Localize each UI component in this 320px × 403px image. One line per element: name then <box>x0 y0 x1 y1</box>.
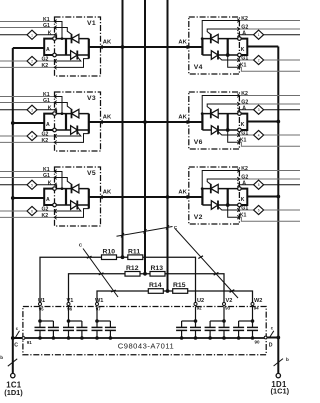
cable marker C (right, across snubber rows) <box>175 229 238 299</box>
svg-text:4: 4 <box>31 135 33 139</box>
node V3 terminal A <box>53 128 57 132</box>
svg-text:R14: R14 <box>149 282 162 289</box>
wire V4 K2 <box>239 20 300 22</box>
wire V3 K2 <box>0 141 55 143</box>
wire W2 drop to capacitors <box>252 306 254 321</box>
cable marker C (upper, across phase buses) <box>117 227 173 237</box>
wire V5 AK output <box>89 196 101 198</box>
wire V3 external jumper frame K-A <box>44 114 53 130</box>
wire V1 internal right bar (AK) <box>88 39 90 59</box>
junction U2 spreader <box>194 319 198 323</box>
wire V1 K2 <box>0 66 55 68</box>
wire V2 drop to capacitors <box>223 306 225 321</box>
junction V2 K1 / bottom line <box>226 203 230 207</box>
svg-text:W2: W2 <box>254 298 262 304</box>
wire DC bus 1D1 (right vertical) <box>277 47 279 374</box>
wire V2 K1 (jogs down outside module) <box>239 217 300 221</box>
wire V6 G2 internal to gate <box>207 104 239 109</box>
svg-text:b: b <box>0 355 3 360</box>
svg-text:AK: AK <box>178 39 187 45</box>
thyristor V2 bottom (forward) <box>211 201 218 210</box>
wire V1 phase input <box>13 47 44 49</box>
node board terminal V2 (93) <box>223 303 226 306</box>
junction row3 / bus W <box>166 289 170 293</box>
svg-text:K: K <box>241 122 245 128</box>
svg-text:G2: G2 <box>42 207 49 213</box>
svg-text:C98043-A7011: C98043-A7011 <box>118 342 175 351</box>
svg-text:AK: AK <box>103 39 112 45</box>
svg-text:6: 6 <box>258 209 260 213</box>
capacitor W1 b <box>109 321 111 327</box>
junction 1C1 bus / V3 input <box>11 121 15 125</box>
junction AK row 1 / bus U <box>121 45 125 49</box>
capacitor V1 a <box>68 321 70 327</box>
svg-text:D: D <box>269 343 273 349</box>
svg-text:92: 92 <box>197 306 202 311</box>
capacitor U2 b <box>181 321 183 327</box>
wire V5 K2 <box>0 216 55 218</box>
junction row1 / bus U <box>121 255 125 259</box>
wire V2 A (with plug diamond) <box>239 184 300 186</box>
wire V4 A (with plug diamond) <box>239 34 300 36</box>
wire V2 G2 internal to gate <box>207 179 239 184</box>
wire V5 internal bottom line <box>56 204 89 206</box>
capacitor W1 a <box>96 321 98 327</box>
cable marker c (left) <box>15 331 20 339</box>
svg-text:AK: AK <box>103 189 112 195</box>
junction 1C1 bus / terminal 91 wire <box>11 336 15 340</box>
wire V3 K1 <box>0 96 55 98</box>
resistor R10 <box>102 255 117 260</box>
thyristor V5 bottom (forward) <box>71 201 78 210</box>
svg-text:C: C <box>14 342 18 348</box>
junction V2 spreader <box>222 319 226 323</box>
wire V4 K1 (jogs down outside module) <box>239 67 300 71</box>
svg-text:5: 5 <box>258 183 260 187</box>
svg-text:1: 1 <box>31 33 33 37</box>
node board terminal V1 (96) <box>67 303 70 306</box>
capacitor V2 b <box>209 321 211 327</box>
svg-text:A: A <box>242 180 246 186</box>
junction 1D1 bus / terminal 90 wire <box>276 336 280 340</box>
svg-text:G1: G1 <box>43 23 50 29</box>
svg-text:K2: K2 <box>42 138 49 144</box>
capacitor V1 b <box>81 321 83 327</box>
wire V4 G1 <box>239 59 300 61</box>
svg-text:K2: K2 <box>241 16 248 22</box>
wire V2 internal top line <box>202 188 237 190</box>
capacitor U1 a <box>39 321 41 327</box>
svg-text:AK: AK <box>178 114 187 120</box>
board C98043-A7011 outline <box>23 307 266 355</box>
wire V4 internal left bar (AK) <box>201 39 203 55</box>
svg-text:A: A <box>242 30 246 36</box>
wire V1 G2 <box>0 60 55 62</box>
cable marker b (right) <box>274 359 283 366</box>
wire V5 K internal stub <box>55 185 57 189</box>
thyristor V4 bottom (forward) <box>211 51 218 60</box>
thyristor module V6 outline <box>189 92 240 149</box>
wire AK row V5-V2 <box>89 196 203 198</box>
wire V6 G1 internal to gate <box>218 132 239 135</box>
wire V4 AK output <box>189 46 203 48</box>
wire V1 internal top line <box>56 38 89 40</box>
wire V1 K1 <box>0 21 55 23</box>
node V5 terminal K <box>53 187 57 191</box>
svg-text:K: K <box>48 31 52 37</box>
capacitor W2 a <box>252 321 254 327</box>
junction V1 spreader <box>67 319 71 323</box>
wire V5 internal right bar (AK) <box>88 189 90 209</box>
thyristor V1 top (reverse) <box>71 34 73 43</box>
wire V6 G1 <box>239 134 300 136</box>
node V2 terminal A <box>238 187 242 191</box>
wire V3 G1 <box>0 102 55 104</box>
wire V2 external jumper frame A-K <box>241 189 247 205</box>
svg-text:90: 90 <box>255 340 261 345</box>
node V1 terminal A <box>53 53 57 57</box>
svg-text:K1: K1 <box>240 138 247 144</box>
wire V3 internal right bar (AK) <box>88 114 90 134</box>
wire V5 K2 internal <box>55 209 89 218</box>
wire V1 G1 internal to gate <box>55 28 72 35</box>
wire V5 K (with plug diamond) <box>0 184 55 186</box>
svg-text:K: K <box>48 181 52 187</box>
wire V6 internal right bar <box>227 114 229 130</box>
thyristor module V1 outline <box>55 17 101 76</box>
cable marker c (right) <box>269 331 274 338</box>
svg-text:R10: R10 <box>103 248 116 255</box>
wire AK row V1-V4 <box>89 46 203 48</box>
wire V1 internal left bar <box>65 39 67 55</box>
wire V2 K1 internal <box>228 205 240 217</box>
junction AK row 2 / bus V <box>143 120 147 124</box>
thyristor V3 bottom (forward) <box>71 126 78 135</box>
node V2 terminal K <box>238 203 242 207</box>
wire W1 drop to capacitors <box>96 306 98 321</box>
wire V6 phase output <box>247 121 278 123</box>
thyristor V5 top (reverse) <box>71 184 73 193</box>
svg-text:2: 2 <box>31 60 33 64</box>
wire V1 K (with plug diamond) <box>0 34 55 36</box>
svg-text:V2: V2 <box>226 298 233 304</box>
wire V1 external jumper frame K-A <box>44 39 53 55</box>
wire V5 G1 internal to gate <box>55 178 72 185</box>
svg-text:K1: K1 <box>240 213 247 219</box>
thyristor V6 bottom (forward) <box>211 126 218 135</box>
svg-text:V1: V1 <box>67 298 74 304</box>
wire V2 AK output <box>189 196 203 198</box>
thyristor V1 bottom (forward) <box>71 51 78 60</box>
svg-text:K: K <box>48 106 52 112</box>
node V1 terminal K <box>53 37 57 41</box>
svg-text:AK: AK <box>103 114 112 120</box>
svg-text:3: 3 <box>31 108 33 112</box>
wire V2 G1 internal to gate <box>218 207 239 210</box>
wire V3 phase input <box>13 122 44 124</box>
svg-text:K2: K2 <box>241 166 248 172</box>
svg-text:K2: K2 <box>42 213 49 219</box>
wire phase bus V (vertical) <box>144 0 146 274</box>
node V4 terminal A <box>238 37 242 41</box>
wire V4 internal top line <box>202 38 237 40</box>
capacitor U2 a <box>195 321 197 327</box>
junction W1 spreader <box>95 319 99 323</box>
svg-text:3: 3 <box>258 108 260 112</box>
wire V5 phase input <box>13 197 44 199</box>
node board terminal W1 (97) <box>96 303 99 306</box>
wire V1 G2 internal to gate <box>55 57 81 61</box>
svg-text:G1: G1 <box>43 173 50 179</box>
wire snubber row 2 (V) <box>69 274 225 305</box>
wire V6 K2 <box>239 95 300 97</box>
wire V6 K1 (jogs down outside module) <box>239 142 300 146</box>
thyristor V3 top (reverse) <box>71 109 73 118</box>
wire V1 AK output <box>89 46 101 48</box>
wire V4 external jumper frame A-K <box>241 39 247 55</box>
wire V5 internal top line <box>56 188 89 190</box>
junction 1D1 bus / V2 output <box>276 195 280 199</box>
node V5 terminal A <box>53 203 57 207</box>
junction 1D1 bus / V6 output <box>276 120 280 124</box>
wire V1 K internal stub <box>55 35 57 39</box>
svg-text:V4: V4 <box>194 64 203 71</box>
wire DC bus 1C1 (left vertical) <box>12 48 14 373</box>
wire V3 G2 internal to gate <box>55 132 81 136</box>
thyristor module V5 outline <box>55 167 101 226</box>
thyristor V4 top (reverse) <box>210 34 212 43</box>
node board terminal 90 <box>264 336 267 339</box>
svg-text:(1D1): (1D1) <box>4 388 23 397</box>
wire V6 G2 <box>239 103 300 105</box>
wire V3 K1 internal drop <box>55 97 63 114</box>
resistor R15 <box>173 289 188 294</box>
resistor R13 <box>150 272 165 277</box>
svg-text:V6: V6 <box>194 139 203 146</box>
cable marker b (left) <box>8 359 17 366</box>
wire V5 K1 internal drop <box>55 172 63 189</box>
wire V2 K2 <box>239 170 300 172</box>
svg-text:6: 6 <box>31 210 33 214</box>
capacitor U1 b <box>52 321 54 327</box>
wire V4 G2 <box>239 28 300 30</box>
node board terminal 91 <box>22 337 25 340</box>
wire V2 internal left bar (AK) <box>201 189 203 205</box>
svg-text:W1: W1 <box>95 298 103 304</box>
wire V6 A (with plug diamond) <box>239 109 300 111</box>
thyristor V2 top (reverse) <box>210 184 212 193</box>
wire V2 internal bottom line <box>202 204 237 206</box>
wire V3 K2 internal <box>55 134 89 143</box>
svg-text:G2: G2 <box>42 57 49 63</box>
wire V6 external jumper frame A-K <box>241 114 247 130</box>
wire V2 phase output <box>247 196 278 198</box>
svg-text:b: b <box>286 357 289 362</box>
wire AK row V3-V6 <box>89 121 203 123</box>
svg-text:G1: G1 <box>241 206 248 212</box>
wire V5 G1 <box>0 177 55 179</box>
wire V3 internal left bar <box>65 114 67 130</box>
wire V2 internal right bar <box>227 189 229 205</box>
wire phase bus U (vertical) <box>122 0 124 257</box>
svg-text:A: A <box>46 197 50 203</box>
svg-text:(1C1): (1C1) <box>271 387 290 396</box>
thyristor module V2 outline <box>189 167 240 224</box>
junction V4 K1 / bottom line <box>226 53 230 57</box>
svg-text:U1: U1 <box>38 298 45 304</box>
wire V5 G2 <box>0 210 55 212</box>
wire V5 external jumper frame K-A <box>44 189 53 205</box>
svg-text:A: A <box>242 105 246 111</box>
wire snubber row 3 (W) <box>97 291 253 305</box>
wire V2 G1 <box>239 209 300 211</box>
svg-text:G1: G1 <box>43 98 50 104</box>
svg-text:C: C <box>79 242 83 248</box>
junction V6 K1 / bottom line <box>226 128 230 132</box>
junction row2 / bus V <box>143 272 147 276</box>
terminal 1D1 <box>276 373 280 377</box>
junction W2 spreader <box>251 319 255 323</box>
junction 1C1 bus / V5 input <box>11 196 15 200</box>
wire V4 G1 internal to gate <box>218 57 239 60</box>
wire board bottom bus <box>23 337 266 339</box>
wire V4 K1 internal <box>228 55 240 67</box>
wire V6 internal bottom line <box>202 129 237 131</box>
junction U1 spreader <box>38 319 42 323</box>
svg-text:K2: K2 <box>241 91 248 97</box>
svg-text:G1: G1 <box>241 56 248 62</box>
svg-text:R15: R15 <box>173 282 186 289</box>
wire V3 AK output <box>89 121 101 123</box>
wire V2 G2 <box>239 178 300 180</box>
wire V1 K1 internal drop <box>55 22 63 39</box>
capacitor W2 b <box>238 321 240 327</box>
svg-text:91: 91 <box>27 340 33 345</box>
wire V5 G2 internal to gate <box>55 207 81 211</box>
svg-text:1: 1 <box>258 33 260 37</box>
svg-text:R13: R13 <box>151 265 164 272</box>
svg-text:94: 94 <box>254 306 259 311</box>
wire V3 internal top line <box>56 113 89 115</box>
svg-text:R12: R12 <box>126 265 139 272</box>
wire V6 K1 internal <box>228 130 240 142</box>
node board terminal W2 (94) <box>251 303 254 306</box>
svg-text:AK: AK <box>178 189 187 195</box>
wire 1D1 to terminal 90 <box>267 337 278 339</box>
wire V1 internal bottom line <box>56 54 89 56</box>
node V6 terminal A <box>238 112 242 116</box>
wire snubber row 1 (U) <box>40 257 196 305</box>
wire 1C1 to terminal 91 <box>13 337 22 339</box>
wire V3 K (with plug diamond) <box>0 109 55 111</box>
wire V6 K2 internal drop <box>202 96 239 114</box>
thyristor module V3 outline <box>55 92 101 151</box>
svg-text:K: K <box>241 47 245 53</box>
svg-text:R11: R11 <box>128 248 140 255</box>
wire V6 internal left bar (AK) <box>201 114 203 130</box>
wire V4 internal bottom line <box>202 54 237 56</box>
wire U1 drop to capacitors <box>39 306 41 321</box>
wire V3 G1 internal to gate <box>55 103 72 110</box>
wire V1 K2 internal <box>55 59 89 68</box>
wire V6 internal top line <box>202 113 237 115</box>
node V3 terminal K <box>53 112 57 116</box>
wire V3 K internal stub <box>55 110 57 114</box>
svg-text:V1: V1 <box>87 20 96 27</box>
resistor R14 <box>148 289 163 294</box>
svg-text:K1: K1 <box>240 63 247 69</box>
capacitor V2 a <box>223 321 225 327</box>
junction AK row 3 / bus W <box>166 195 170 199</box>
wire V1 drop to capacitors <box>68 306 70 321</box>
cable marker C (left, across snubber rows) <box>83 249 118 298</box>
wire U2 drop to capacitors <box>195 306 197 321</box>
wire V3 internal bottom line <box>56 129 89 131</box>
svg-text:V5: V5 <box>87 170 96 177</box>
wire V6 AK output <box>189 121 203 123</box>
thyristor module V4 outline <box>189 17 240 74</box>
svg-text:2: 2 <box>258 59 260 63</box>
svg-text:V2: V2 <box>194 214 203 221</box>
wire V4 K2 internal drop <box>202 21 239 39</box>
node V6 terminal K <box>238 128 242 132</box>
svg-text:G2: G2 <box>42 132 49 138</box>
wire V1 G1 <box>0 27 55 29</box>
svg-text:K2: K2 <box>42 63 49 69</box>
wire V5 internal left bar <box>65 189 67 205</box>
svg-text:4: 4 <box>258 134 260 138</box>
wire V2 K2 internal drop <box>202 171 239 189</box>
svg-text:A: A <box>46 47 50 53</box>
svg-text:U2: U2 <box>197 298 204 304</box>
wire V3 G2 <box>0 135 55 137</box>
svg-text:G1: G1 <box>241 131 248 137</box>
terminal 1C1 <box>11 373 15 377</box>
resistor R12 <box>125 272 140 277</box>
svg-text:5: 5 <box>31 183 33 187</box>
node board terminal U1 (95) <box>39 303 42 306</box>
wire phase bus W (vertical) <box>167 0 169 291</box>
resistor R11 <box>128 255 143 260</box>
wire V4 internal right bar <box>227 39 229 55</box>
node board terminal U2 (92) <box>194 303 197 306</box>
wire V4 G2 internal to gate <box>207 29 239 34</box>
svg-text:A: A <box>46 122 50 128</box>
thyristor V6 top (reverse) <box>210 109 212 118</box>
wire V5 K1 <box>0 171 55 173</box>
wire V4 phase output <box>247 46 278 48</box>
svg-text:K: K <box>241 197 245 203</box>
svg-text:93: 93 <box>225 306 230 311</box>
svg-text:V3: V3 <box>87 95 96 102</box>
node V4 terminal K <box>238 53 242 57</box>
